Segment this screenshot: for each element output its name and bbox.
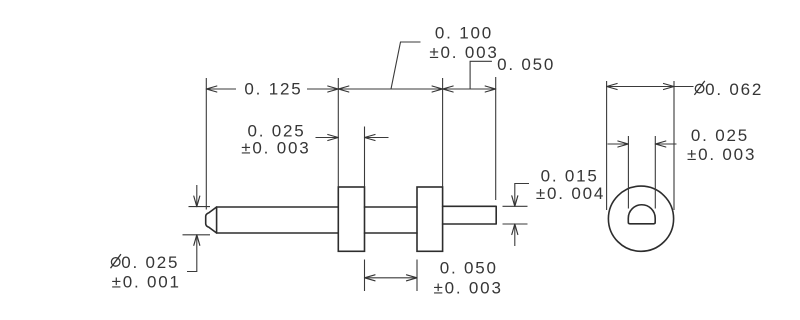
- arrowhead end 0.025 left: [618, 141, 629, 147]
- wire mid shaft top: [365, 206, 418, 208]
- arrowhead 0.100 right: [432, 86, 443, 92]
- svg-text:0. 050: 0. 050: [497, 55, 555, 74]
- svg-text:0. 050: 0. 050: [440, 259, 498, 278]
- extension line pin tip: [205, 78, 207, 210]
- extension line flange1 left: [337, 78, 339, 187]
- dimension 0.015 top leader: [515, 184, 529, 207]
- dimension 0.025 end view arrow lines: [608, 143, 677, 145]
- svg-text:0. 015: 0. 015: [541, 166, 599, 185]
- leader 0.100: [391, 42, 421, 89]
- arrowhead 0.015 down: [512, 196, 518, 207]
- flange 1: [338, 187, 364, 251]
- svg-text:0. 025: 0. 025: [121, 253, 179, 272]
- extension line flange1 right lower: [364, 260, 366, 292]
- arrowhead 0.062 right: [664, 84, 675, 90]
- arrowhead 0.125 left: [206, 86, 217, 92]
- label dia 0.025 pin: [111, 254, 121, 268]
- svg-text:0. 100: 0. 100: [435, 24, 493, 43]
- extension line thin shaft bottom right: [503, 223, 528, 225]
- extension line pin top left: [189, 206, 211, 208]
- arrowhead end 0.025 right: [655, 141, 666, 147]
- flange 2: [417, 187, 443, 251]
- extension line shaft right end: [495, 77, 497, 200]
- arrowhead 0.050 right: [485, 86, 496, 92]
- arrowhead 0.050 bottom left: [365, 275, 376, 281]
- wire shaft bottom line: [217, 232, 338, 234]
- leader 0.050 top: [470, 61, 492, 89]
- svg-text:±0. 001: ±0. 001: [112, 273, 181, 292]
- extension line thin shaft top right: [503, 205, 528, 207]
- extension line D right: [654, 136, 656, 209]
- dimension 0.050 top line: [443, 88, 496, 90]
- extension line flange2 left lower: [416, 260, 418, 292]
- arrowhead pin dia down: [194, 196, 200, 207]
- arrowhead 0.125 right: [328, 86, 339, 92]
- arrowhead flange 0.025 right: [365, 135, 376, 141]
- arrowhead pin dia up: [194, 235, 200, 246]
- svg-text:±0. 003: ±0. 003: [429, 43, 498, 62]
- extension line circle right: [673, 81, 675, 210]
- end view outer circle: [608, 186, 673, 251]
- arrowhead 0.100 left: [338, 86, 349, 92]
- extension line flange1 right upper: [364, 127, 366, 187]
- svg-text:±0. 004: ±0. 004: [536, 184, 605, 203]
- dimension pin dia top arrow line: [196, 185, 198, 207]
- svg-text:±0. 003: ±0. 003: [241, 139, 310, 158]
- dimension pin dia bottom leader: [187, 235, 197, 272]
- arrowhead 0.015 up: [512, 224, 518, 235]
- arrowhead flange 0.025 left: [328, 135, 339, 141]
- svg-text:0. 025: 0. 025: [691, 126, 749, 145]
- svg-text:0. 125: 0. 125: [244, 80, 302, 99]
- extension line pin bottom left: [183, 234, 211, 236]
- extension line D left: [627, 136, 629, 209]
- dimension 0.125 line: [206, 88, 338, 90]
- arrowhead 0.050 bottom right: [407, 275, 418, 281]
- dimension 0.100 line: [338, 88, 442, 90]
- pin tip nose: [206, 207, 217, 233]
- wire thin end shaft: [443, 206, 497, 224]
- arrowhead 0.050 left: [443, 86, 454, 92]
- svg-text:±0. 003: ±0. 003: [434, 278, 503, 297]
- dimension 0.025 flange arrows: [316, 137, 389, 139]
- svg-text:±0. 003: ±0. 003: [687, 145, 756, 164]
- wire shaft top line: [217, 206, 338, 208]
- svg-text:0. 062: 0. 062: [705, 80, 763, 99]
- dimension 0.062 line: [607, 86, 694, 88]
- arrowhead 0.062 left: [607, 84, 618, 90]
- wire mid shaft bottom: [365, 232, 418, 234]
- extension line circle left: [606, 81, 608, 210]
- extension line flange2 right: [442, 78, 444, 187]
- label dia 0.062: [694, 81, 704, 95]
- dimension 0.015 bottom arrow line: [514, 224, 516, 246]
- end view D-shaped pin section: [628, 205, 655, 224]
- dimension 0.050 bottom line: [365, 277, 418, 279]
